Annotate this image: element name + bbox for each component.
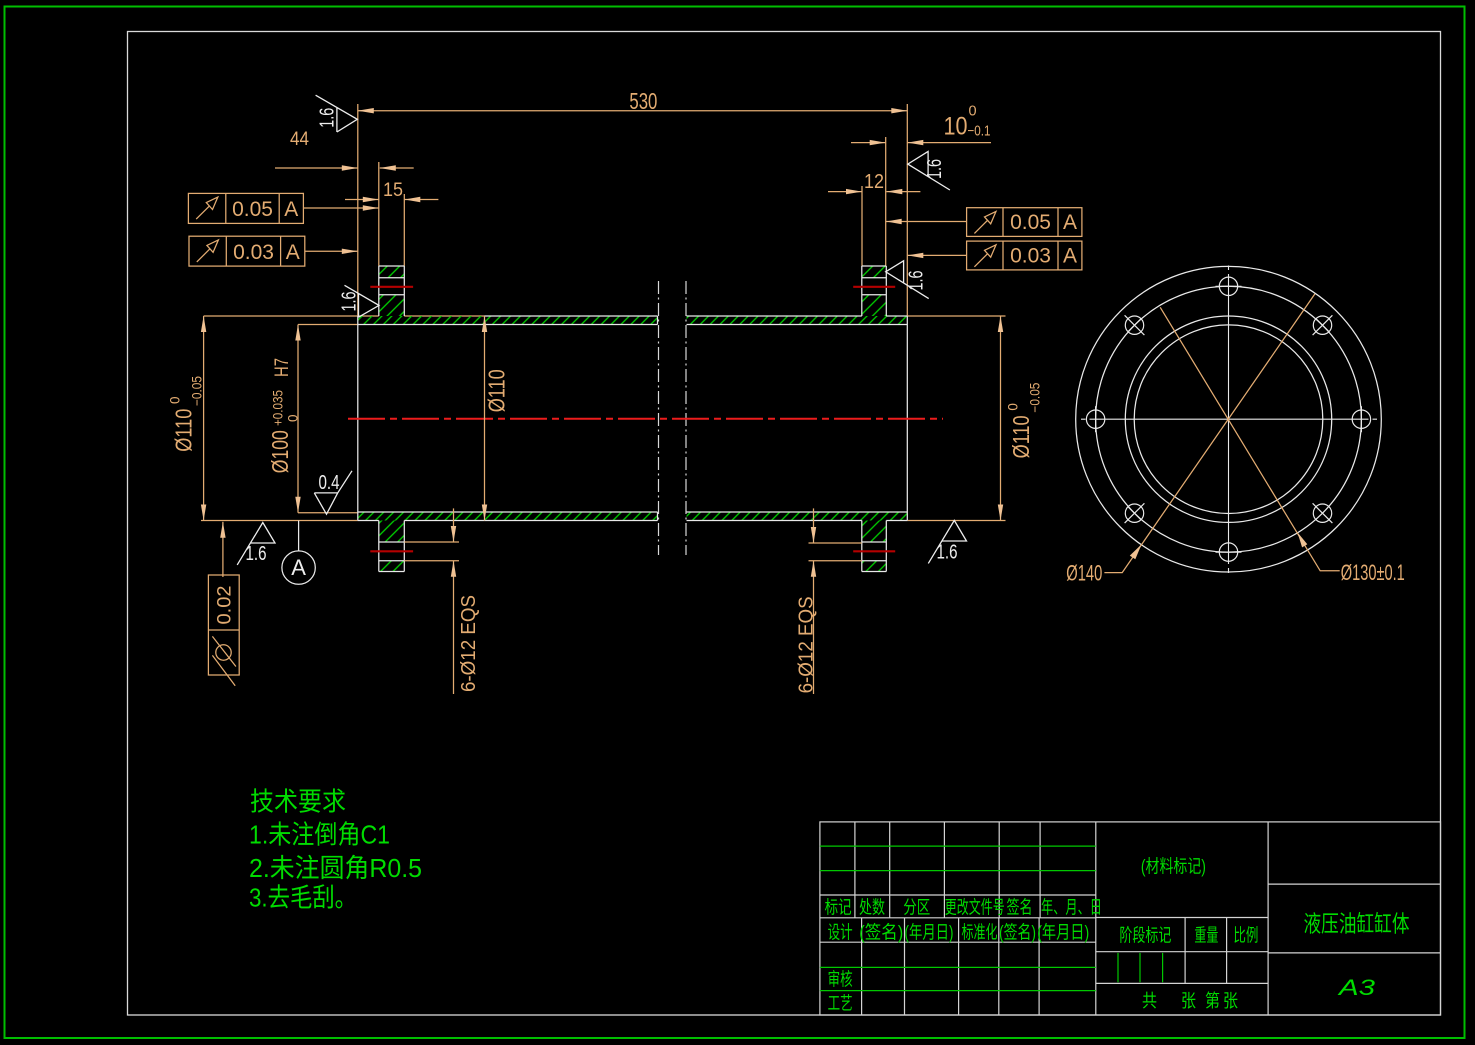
svg-text:1.6: 1.6	[937, 542, 958, 564]
svg-text:(年月日): (年月日)	[1037, 923, 1089, 943]
svg-text:分区: 分区	[903, 898, 930, 918]
text 0.02 rotated in frame	[215, 586, 236, 625]
bottom-right flange outline	[862, 571, 887, 573]
svg-text:1.6: 1.6	[339, 292, 361, 312]
title block middle horizontals	[1096, 918, 1268, 984]
svg-text:0.05: 0.05	[1010, 211, 1051, 234]
extension line bore bottom y=512.7	[298, 512, 358, 514]
cross hole NE	[1313, 316, 1331, 334]
text dia100 +0.035/0 H7 (rotated)	[267, 358, 301, 473]
svg-text:0.05: 0.05	[232, 198, 273, 221]
extension line top outer left y=316	[204, 315, 379, 317]
cross hole SE	[1313, 504, 1331, 522]
bolt hole centerline top-right flange	[853, 286, 895, 288]
svg-text:Ø110: Ø110	[170, 409, 196, 452]
svg-text:液压油缸缸体: 液压油缸缸体	[1304, 911, 1410, 937]
svg-text:1.6: 1.6	[246, 543, 267, 565]
dimension 530 line	[358, 110, 908, 112]
feature control frame 0.05 A left	[188, 193, 303, 223]
roughness symbol 1.6 at left flange face	[345, 285, 380, 317]
svg-text:(签名): (签名)	[999, 923, 1036, 943]
bottom outer surface lines	[358, 520, 379, 522]
hole dim 6-dia12 left: dimension line with outside arrows	[453, 508, 455, 542]
dia110 outer circle	[1125, 316, 1331, 522]
dia100 bore circle	[1134, 325, 1323, 514]
horizontal centerline of end view	[1081, 418, 1377, 420]
text 6-dia12 EQS left (rotated)	[458, 595, 480, 692]
extension line bore top y=324.5	[298, 324, 358, 326]
svg-text:6-Ø12 EQS: 6-Ø12 EQS	[796, 596, 818, 693]
dimension dia110 middle line	[484, 316, 486, 521]
svg-text:(年月日): (年月日)	[905, 923, 954, 943]
svg-text:审核: 审核	[828, 970, 853, 990]
svg-text:0.4: 0.4	[319, 472, 340, 494]
roughness symbol 1.6 at left face top	[316, 95, 358, 132]
bolt hole S	[1219, 543, 1237, 561]
svg-text:更改文件号: 更改文件号	[945, 898, 1005, 918]
svg-text:0: 0	[285, 414, 300, 422]
bolt hole E	[1352, 410, 1370, 428]
feature control frame 0.03 A left	[189, 236, 305, 266]
band end caps at break	[657, 316, 659, 325]
svg-text:标记: 标记	[825, 898, 852, 918]
svg-text:签名: 签名	[1007, 898, 1033, 918]
text dia110 middle (rotated)	[484, 369, 510, 412]
title block green horizontals	[820, 846, 1096, 991]
vertical centerline of end view	[1228, 266, 1230, 574]
svg-text:A: A	[291, 555, 306, 580]
svg-text:Ø140: Ø140	[1066, 561, 1102, 586]
svg-text:2.未注圆角R0.5: 2.未注圆角R0.5	[249, 853, 422, 883]
svg-text:共: 共	[1142, 991, 1157, 1011]
svg-text:530: 530	[629, 88, 657, 114]
dimension 10 lines	[851, 142, 886, 144]
svg-text:工艺: 工艺	[828, 994, 853, 1014]
svg-text:1.6: 1.6	[317, 108, 339, 128]
svg-text:0: 0	[969, 104, 977, 120]
hatch fill top-left flange	[379, 266, 405, 278]
title block verticals lower-left section	[862, 918, 1040, 1015]
svg-text:Ø110: Ø110	[1008, 415, 1034, 458]
svg-text:A: A	[1063, 211, 1077, 234]
svg-text:技术要求: 技术要求	[250, 787, 346, 817]
dia130 leader line through center	[1160, 307, 1340, 571]
title block outer box	[820, 822, 1441, 1015]
break line left (dash-dot)	[658, 281, 660, 555]
roughness symbol 0.4 at bore (inverted)	[314, 471, 352, 514]
hole dim 6-dia12 right: extension lines	[809, 542, 862, 544]
svg-text:A3: A3	[1336, 975, 1376, 1000]
svg-text:比例: 比例	[1233, 926, 1258, 946]
title block right column horizontals	[1268, 884, 1440, 953]
svg-text:+0.035: +0.035	[270, 390, 285, 426]
svg-text:重量: 重量	[1194, 926, 1218, 946]
svg-text:0.02: 0.02	[215, 586, 236, 625]
extension line bottom outer left y=520.5	[201, 520, 358, 522]
dimension dia110 right line	[1000, 316, 1002, 521]
top-left flange outline	[379, 265, 405, 267]
svg-text:处数: 处数	[859, 898, 885, 918]
svg-text:0: 0	[1005, 403, 1020, 411]
title block white horizontals left	[820, 895, 1096, 942]
text 1.6 left flange (rotated)	[339, 292, 361, 312]
text dia110 -0.05 right (rotated)	[1005, 383, 1042, 459]
svg-text:阶段标记: 阶段标记	[1119, 926, 1171, 946]
hatch fill bottom-right flange	[862, 521, 887, 543]
svg-text:44: 44	[290, 128, 309, 150]
svg-text:Ø130±0.1: Ø130±0.1	[1341, 560, 1405, 585]
extension line left face vertical x=357.8	[357, 104, 359, 316]
bolt circle	[1096, 286, 1362, 552]
cross hole NW	[1125, 316, 1143, 334]
leader from 0.03-A left frame	[305, 250, 358, 252]
title block verticals upper-left section	[855, 822, 1040, 918]
svg-text:15: 15	[383, 179, 403, 201]
roughness symbol 1.6 at right flange face	[886, 261, 929, 299]
svg-text:0: 0	[168, 396, 183, 404]
svg-text:年、月、日: 年、月、日	[1041, 898, 1102, 918]
cylindricity 0.02 frame (vertical)	[208, 575, 239, 686]
feature control frame 0.03 A right	[967, 241, 1082, 270]
bolt hole centerline bottom-left flange	[370, 550, 413, 552]
svg-text:−0.1: −0.1	[968, 124, 991, 140]
svg-text:张: 张	[1181, 991, 1196, 1011]
svg-text:第: 第	[1205, 991, 1220, 1011]
leader from 0.02 runout frame	[222, 522, 224, 577]
svg-text:Ø110: Ø110	[484, 369, 510, 412]
svg-text:−0.05: −0.05	[190, 376, 205, 406]
svg-text:1.未注倒角C1: 1.未注倒角C1	[249, 820, 390, 850]
text 1.6 top-left (rotated)	[317, 108, 339, 128]
svg-text:Ø100: Ø100	[267, 430, 293, 473]
dimension 12 lines	[828, 191, 862, 193]
bolt hole N	[1219, 277, 1237, 295]
main axis centerline (red)	[348, 418, 943, 420]
feature control frame 0.05 A right	[967, 208, 1082, 237]
roughness symbol 1.6 at bottom face right	[928, 520, 966, 563]
svg-text:H7: H7	[272, 358, 293, 377]
svg-text:−0.05: −0.05	[1028, 383, 1043, 413]
hatch fill bottom-left flange	[379, 521, 405, 543]
title block middle column borders	[1096, 822, 1268, 1015]
title block green ticks (stage mark cell)	[1118, 953, 1163, 982]
datum A symbol	[282, 521, 315, 585]
bore bottom lines	[358, 511, 658, 513]
dimension dia110 left line	[203, 316, 205, 521]
text 1.6 right top (rotated)	[924, 159, 946, 179]
svg-text:张: 张	[1223, 991, 1238, 1011]
cylinder left face line	[357, 316, 359, 521]
svg-text:A: A	[1063, 245, 1077, 268]
extension lines top-left flange x=378.8 and x=404.3	[378, 162, 380, 266]
outer flange circle	[1076, 266, 1382, 572]
svg-text:6-Ø12 EQS: 6-Ø12 EQS	[458, 595, 480, 692]
svg-text:0.03: 0.03	[233, 241, 274, 264]
svg-text:12: 12	[864, 170, 884, 193]
extension lines top-right flange x=862 and x=885.7	[861, 186, 863, 266]
bottom-left flange outline	[379, 571, 405, 573]
svg-text:设计: 设计	[828, 923, 853, 943]
cross hole SW	[1125, 504, 1143, 522]
roughness symbol 1.6 at right face top	[908, 151, 950, 190]
hatch fill top-right flange	[862, 266, 887, 278]
svg-text:3.去毛刮。: 3.去毛刮。	[249, 883, 357, 913]
hole dim 6-dia12 right: dimension line with outside arrows	[813, 508, 815, 543]
extension line bottom outer right y=520.5	[907, 520, 1005, 522]
bolt hole centerline top-left flange	[370, 286, 413, 288]
bolt hole W	[1086, 410, 1104, 428]
svg-text:(材料标记): (材料标记)	[1141, 857, 1206, 877]
svg-text:标准化: 标准化	[962, 923, 998, 943]
svg-text:(签名): (签名)	[859, 923, 903, 943]
dia140 leader line through center	[1104, 294, 1315, 573]
top-right flange outline	[862, 265, 887, 267]
svg-text:A: A	[284, 198, 298, 221]
dimension dia100 bore line	[297, 325, 299, 513]
text dia110 -0.05 left (rotated)	[168, 376, 205, 452]
svg-text:1.6: 1.6	[924, 159, 946, 179]
title block middle verticals	[1185, 918, 1227, 984]
bore top lines	[358, 324, 658, 326]
svg-text:1.6: 1.6	[906, 271, 928, 291]
leader from 0.03-A right frame	[907, 254, 966, 256]
svg-text:0.03: 0.03	[1010, 245, 1051, 268]
hatch fill bottom wall band	[358, 512, 658, 521]
roughness symbol 1.6 at bottom face left	[237, 523, 275, 565]
svg-text:10: 10	[944, 113, 968, 141]
text 1.6 right flange (rotated)	[906, 271, 928, 291]
svg-text:A: A	[286, 241, 300, 264]
leader from 0.05-A right frame	[886, 221, 967, 223]
cylinder right face line	[906, 316, 908, 521]
hole dim 6-dia12 left: extension lines	[404, 541, 459, 543]
break line right (dash-dot)	[685, 281, 687, 555]
text 6-dia12 EQS right (rotated)	[796, 596, 818, 693]
leader from 0.05-A left frame	[303, 207, 378, 209]
bolt hole centerline bottom-right flange	[853, 550, 895, 552]
top outer surface lines	[485, 315, 658, 317]
dimension 44 lines	[275, 167, 358, 169]
hatch fill top wall band	[358, 316, 658, 325]
extension line top outer right y=316	[907, 315, 1005, 317]
extension line right face vertical x=907.3	[906, 104, 908, 316]
dimension 15 lines	[345, 199, 379, 201]
